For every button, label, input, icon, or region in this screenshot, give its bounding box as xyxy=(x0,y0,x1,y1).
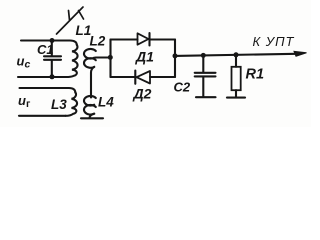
capacitor C1 xyxy=(44,41,61,78)
wire L2 to L4 xyxy=(91,67,94,98)
wire bottom of generator loop xyxy=(19,115,66,117)
resistor R1 xyxy=(235,55,237,67)
svg-text:C2: C2 xyxy=(174,80,191,95)
svg-text:Д2: Д2 xyxy=(133,86,152,102)
inductor L2 xyxy=(84,49,96,59)
diode D1 xyxy=(138,33,149,44)
diode D2 xyxy=(137,71,151,84)
terminal bar L4 xyxy=(81,117,103,119)
node R1 tap xyxy=(234,52,239,57)
wire bridge top right segment xyxy=(150,38,176,40)
node L2 tap xyxy=(108,55,113,60)
svg-text:uс: uс xyxy=(17,54,31,71)
node C1 bottom xyxy=(50,74,55,79)
node C1 top xyxy=(50,38,55,43)
inductor L1 xyxy=(66,45,78,77)
svg-text:L4: L4 xyxy=(98,94,114,109)
svg-text:L3: L3 xyxy=(51,97,67,112)
wire top of signal loop xyxy=(21,41,77,45)
terminal bar R1 xyxy=(227,97,245,99)
arrowhead to UPT xyxy=(294,51,307,56)
wire bottom of signal loop xyxy=(18,76,66,78)
node C2 tap xyxy=(201,53,206,58)
capacitor C2 xyxy=(195,55,216,96)
svg-text:К УПТ: К УПТ xyxy=(253,34,295,49)
svg-text:C1: C1 xyxy=(37,42,54,57)
wire L2 tap to bridge xyxy=(96,56,111,58)
inductor L4 xyxy=(84,96,96,106)
inductor L3 xyxy=(66,92,78,116)
svg-text:Д1: Д1 xyxy=(135,49,154,65)
wire output rail xyxy=(175,54,296,56)
node bridge right tap xyxy=(173,53,178,58)
terminal bar C2 xyxy=(196,96,216,98)
svg-text:uг: uг xyxy=(18,93,31,110)
svg-text:R1: R1 xyxy=(246,67,265,83)
wire L4 bottom lead xyxy=(90,114,95,118)
wire bridge bottom segment xyxy=(111,76,176,78)
svg-text:L2: L2 xyxy=(90,33,106,48)
arrow (variable inductance) xyxy=(57,7,84,34)
wire bridge left vertical xyxy=(109,40,111,78)
wire bridge top left segment xyxy=(111,38,138,40)
wire bridge right vertical xyxy=(174,40,176,78)
wire top of generator loop xyxy=(20,88,76,92)
